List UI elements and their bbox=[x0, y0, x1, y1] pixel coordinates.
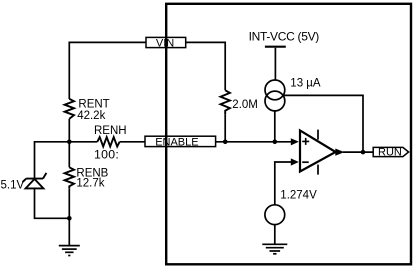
wire 1.274V to minus input bbox=[275, 162, 293, 205]
svg-text:13 µA: 13 µA bbox=[290, 78, 321, 90]
plus input symbol bbox=[302, 138, 309, 145]
junction dot at 2.0M bbox=[223, 140, 228, 145]
zener diode D1 5.1V bbox=[23, 173, 47, 189]
junction dot at current source bbox=[273, 140, 278, 145]
svg-text:INT-VCC (5V): INT-VCC (5V) bbox=[249, 29, 320, 43]
pin label box VIN bbox=[146, 37, 186, 47]
svg-text:42.2k: 42.2k bbox=[77, 110, 105, 122]
svg-text:RENT: RENT bbox=[78, 99, 109, 111]
svg-text:2.0M: 2.0M bbox=[232, 99, 258, 111]
wire 2.0M to enable line bbox=[224, 114, 226, 142]
minus input symbol bbox=[302, 161, 309, 163]
wire RENH to ENABLE bbox=[120, 141, 145, 143]
svg-text:5.1V: 5.1V bbox=[1, 180, 25, 192]
wire voltage source to ground bbox=[274, 225, 276, 245]
wire VIN to divider top bbox=[69, 42, 146, 99]
svg-text:100:: 100: bbox=[94, 148, 119, 162]
signal flag RUN bbox=[373, 147, 408, 156]
arrowhead into plus input bbox=[291, 138, 299, 145]
wire ENABLE to comparator plus input bbox=[216, 141, 293, 143]
svg-text:RENH: RENH bbox=[94, 125, 127, 137]
wire current source to RUN node bbox=[283, 95, 363, 152]
wire zener anode down and right to node B bbox=[35, 188, 70, 218]
junction dot output node bbox=[361, 150, 366, 155]
svg-text:RUN: RUN bbox=[378, 147, 402, 159]
wire comparator output to RUN bbox=[343, 151, 373, 153]
svg-text:VIN: VIN bbox=[156, 38, 174, 50]
resistor 2.0M bbox=[221, 90, 230, 114]
wire node A to zener branch bbox=[35, 142, 70, 179]
ground left bbox=[59, 246, 80, 256]
svg-text:1.274V: 1.274V bbox=[280, 189, 317, 201]
arrowhead into minus input bbox=[291, 158, 299, 165]
wire VIN to 2.0M resistor bbox=[186, 42, 225, 90]
resistor RENT bbox=[65, 99, 74, 119]
resistor RENB bbox=[65, 167, 74, 188]
resistor RENH bbox=[97, 137, 119, 146]
IC block outline bbox=[166, 4, 411, 265]
supply terminal bar bbox=[265, 46, 286, 48]
current source I1 13uA bbox=[265, 80, 285, 100]
wire current source bottom to enable line bbox=[274, 111, 276, 142]
svg-text:12.7k: 12.7k bbox=[76, 177, 104, 189]
pin label box ENABLE bbox=[145, 136, 216, 146]
voltage source V1 1.274V bbox=[265, 205, 285, 225]
output arrowhead at comparator apex bbox=[335, 149, 344, 156]
wire node A to RENH bbox=[69, 141, 97, 143]
node A junction dot bbox=[67, 140, 72, 145]
wire node B to ground bbox=[68, 218, 70, 245]
wire node A down to RENB bbox=[68, 142, 70, 168]
ground right bbox=[262, 244, 287, 254]
node B junction dot bbox=[67, 216, 72, 221]
comparator U1 bbox=[300, 130, 336, 171]
wire RENT bottom to node A bbox=[68, 119, 70, 142]
wire RENB to node B bbox=[68, 188, 70, 218]
wire supply to current source bbox=[274, 48, 276, 80]
svg-text:ENABLE: ENABLE bbox=[155, 136, 198, 148]
hysteresis marks bbox=[317, 130, 319, 175]
